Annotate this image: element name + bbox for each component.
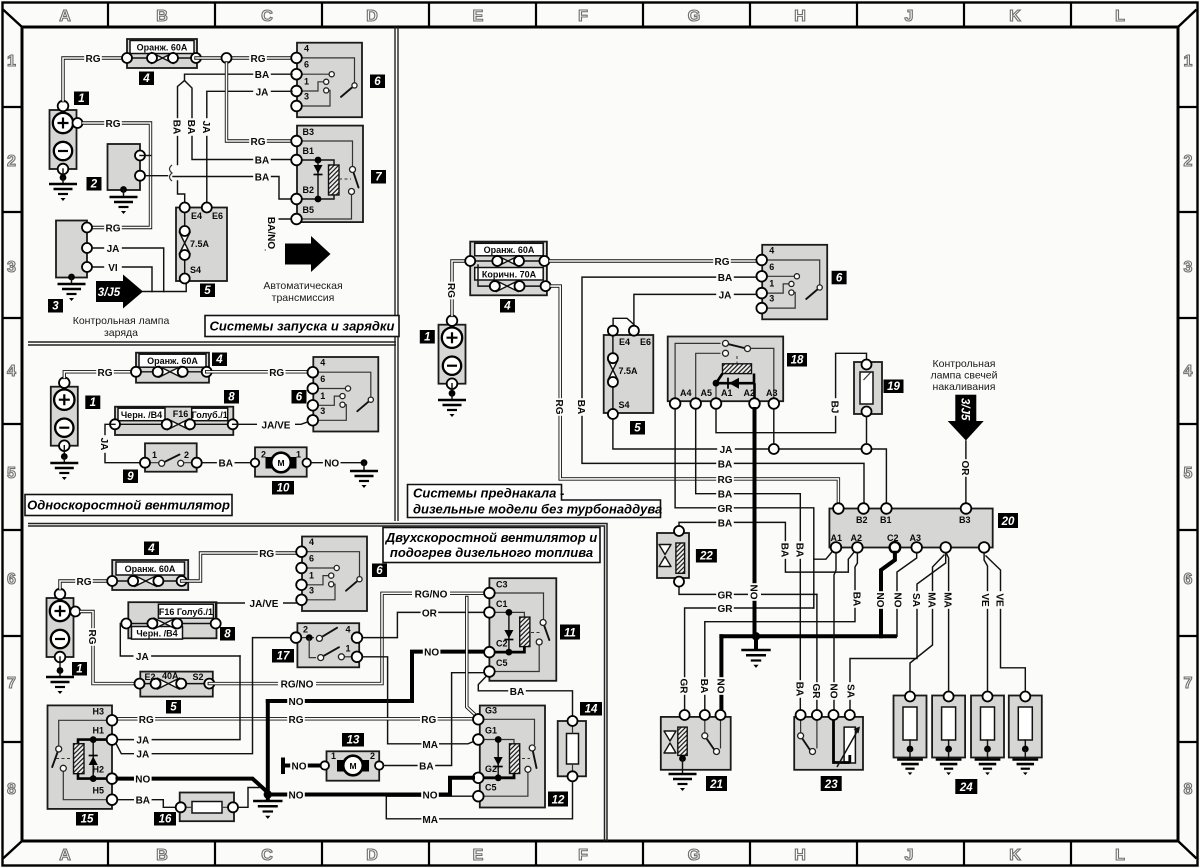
label 11 xyxy=(560,625,580,640)
svg-text:1: 1 xyxy=(76,664,82,676)
label 4 xyxy=(139,72,154,86)
wire GR relay18 A4 trunk xyxy=(675,409,832,608)
svg-text:M: M xyxy=(277,458,284,468)
battery 1 (single-speed fan) xyxy=(51,377,78,451)
svg-text:G3: G3 xyxy=(485,706,497,716)
glow plug 24b xyxy=(932,692,965,776)
wire GR comp23 riser xyxy=(810,594,824,714)
label 17 xyxy=(272,649,294,663)
ground (fan motor) xyxy=(350,459,378,488)
wire RG battery to fuse 4 (preheat) xyxy=(445,261,465,315)
warning module 2 xyxy=(108,144,151,190)
generator/battery 1 (charging section) xyxy=(50,101,77,175)
glow plug relay 18 xyxy=(668,337,784,409)
svg-text:3: 3 xyxy=(1184,259,1193,276)
wire RG fuse4 to switch 6 (sec2) xyxy=(207,366,308,379)
label 16 xyxy=(154,812,176,826)
svg-text:трансмиссия: трансмиссия xyxy=(272,292,335,304)
svg-text:MA: MA xyxy=(942,592,953,608)
svg-text:B: B xyxy=(156,847,168,864)
svg-text:Оранж. 60А: Оранж. 60А xyxy=(137,43,188,53)
svg-text:B3: B3 xyxy=(959,515,971,525)
svg-text:16: 16 xyxy=(159,814,172,826)
svg-text:A1: A1 xyxy=(721,388,733,398)
label 21 xyxy=(706,776,727,791)
svg-text:4: 4 xyxy=(309,537,314,547)
svg-text:E4: E4 xyxy=(191,211,202,221)
svg-text:H3: H3 xyxy=(92,707,104,717)
svg-text:NO: NO xyxy=(423,791,438,802)
svg-text:2: 2 xyxy=(1184,153,1193,170)
svg-text:H1: H1 xyxy=(92,726,104,736)
svg-text:5: 5 xyxy=(170,702,177,714)
svg-text:Черн. /В4: Черн. /В4 xyxy=(121,410,162,420)
svg-text:F16: F16 xyxy=(173,409,189,419)
svg-text:A3: A3 xyxy=(766,388,778,398)
svg-text:RG: RG xyxy=(553,400,564,415)
svg-text:VI: VI xyxy=(108,263,118,274)
wire NO thick to fan motor 13 xyxy=(283,760,321,773)
wire GR branch to heater 22 xyxy=(679,587,817,601)
fuse 8 (F16) sec2 xyxy=(110,407,238,435)
svg-text:OR: OR xyxy=(422,608,438,619)
caption charge warning lamp xyxy=(73,315,170,339)
row numbers right xyxy=(1184,53,1193,798)
label 1 xyxy=(72,662,87,676)
label 6 xyxy=(370,75,385,89)
svg-text:2: 2 xyxy=(7,153,16,170)
svg-text:NO: NO xyxy=(874,593,885,608)
double fuse 4 (Orange 60A / Brown 70A) xyxy=(465,242,550,296)
svg-text:F: F xyxy=(578,847,588,864)
svg-text:дизельные модели без турбонадд: дизельные модели без турбонаддува xyxy=(413,502,662,517)
svg-text:RG: RG xyxy=(251,137,266,148)
svg-text:RG: RG xyxy=(139,715,154,726)
thermoswitch 9 xyxy=(140,443,202,471)
svg-text:A: A xyxy=(59,847,71,864)
svg-text:1: 1 xyxy=(296,450,301,460)
caption glow plug warning lamp xyxy=(930,358,997,393)
svg-text:B: B xyxy=(156,8,168,25)
connector nodes on JA line xyxy=(769,444,779,454)
svg-text:6: 6 xyxy=(376,565,383,577)
svg-text:A: A xyxy=(59,8,71,25)
connector node on RG line xyxy=(222,53,232,63)
label 1 xyxy=(74,92,89,106)
svg-text:4: 4 xyxy=(215,354,223,366)
glow plug 24a xyxy=(894,692,927,776)
svg-text:3: 3 xyxy=(309,585,314,595)
relay 7 xyxy=(291,126,363,225)
svg-text:1: 1 xyxy=(309,570,314,580)
label 9 xyxy=(123,470,138,484)
svg-text:6: 6 xyxy=(769,262,774,272)
svg-text:RG: RG xyxy=(421,715,436,726)
relay 12 xyxy=(473,706,545,808)
svg-text:RG: RG xyxy=(715,257,730,268)
wire RG battery to fuse 4 xyxy=(63,52,122,101)
svg-text:1: 1 xyxy=(769,279,774,289)
svg-text:17: 17 xyxy=(277,651,290,663)
connector RG/NO branch to relay12 G3 xyxy=(467,598,478,718)
label 7 xyxy=(371,170,386,184)
svg-text:F: F xyxy=(578,8,588,25)
svg-text:20: 20 xyxy=(1001,516,1015,528)
svg-text:6: 6 xyxy=(296,392,303,404)
ignition switch 6 (charging) xyxy=(291,43,362,118)
label 6 xyxy=(372,564,387,578)
svg-text:6: 6 xyxy=(374,76,381,88)
svg-text:11: 11 xyxy=(564,628,576,640)
svg-text:BA: BA xyxy=(255,70,269,81)
wire JA unit 3 to S4 junction xyxy=(93,242,164,292)
svg-text:RG: RG xyxy=(98,368,113,379)
svg-text:JA: JA xyxy=(136,750,149,761)
wire MA to glow plug 2 xyxy=(942,554,956,692)
svg-text:заряда: заряда xyxy=(104,327,138,339)
svg-text:BA: BA xyxy=(185,120,196,134)
svg-text:MA: MA xyxy=(926,592,937,608)
svg-text:D: D xyxy=(366,8,378,25)
column letters bottom xyxy=(59,847,1125,864)
svg-text:8: 8 xyxy=(224,629,231,641)
fuse 5 (7.5A E4/S4) charging xyxy=(176,203,227,284)
section divider between charging and single-speed-fan sections xyxy=(28,342,396,345)
svg-text:7.5A: 7.5A xyxy=(190,239,210,249)
svg-text:B2: B2 xyxy=(856,515,868,525)
svg-text:Автоматическая: Автоматическая xyxy=(263,280,342,292)
svg-text:BA: BA xyxy=(575,400,586,414)
label 19 xyxy=(884,380,904,394)
svg-text:A5: A5 xyxy=(701,388,713,398)
wire BJ relay18 A1 to resistor 19 xyxy=(716,353,867,432)
svg-text:SA: SA xyxy=(845,684,856,698)
svg-text:SA: SA xyxy=(910,593,921,607)
ground (battery sec3) xyxy=(46,657,74,694)
wire VE to glow plug 4 xyxy=(986,556,1025,691)
svg-text:BA: BA xyxy=(255,173,269,184)
svg-text:NO: NO xyxy=(748,585,759,600)
svg-text:GR: GR xyxy=(718,504,734,515)
svg-text:JA: JA xyxy=(98,438,109,451)
relay 11 xyxy=(484,578,556,681)
label 8 xyxy=(224,390,239,404)
svg-text:Системы запуска и зарядки: Системы запуска и зарядки xyxy=(210,319,395,334)
svg-text:8: 8 xyxy=(1184,781,1193,798)
preheat control unit 20 xyxy=(829,503,992,553)
svg-text:Оранж. 60А: Оранж. 60А xyxy=(147,356,198,366)
svg-text:BA: BA xyxy=(718,490,732,501)
dropping resistor 14 xyxy=(558,716,586,781)
glow plug 24d xyxy=(1009,692,1042,776)
svg-text:BA: BA xyxy=(718,273,732,284)
svg-text:6: 6 xyxy=(320,374,325,384)
wire A3 down to JA line xyxy=(773,409,775,444)
label 6 xyxy=(832,271,847,285)
fuel heater 16 xyxy=(176,793,238,822)
battery 1 (two-speed fan) xyxy=(47,589,74,663)
svg-text:3: 3 xyxy=(769,294,774,304)
ground (unit 3) xyxy=(58,274,86,301)
fuel filter heater 22 xyxy=(657,526,689,587)
ground (battery preheat) xyxy=(438,384,466,417)
svg-text:NO: NO xyxy=(892,593,903,608)
wire NO thick relay18 A2 to central ground xyxy=(748,409,762,636)
svg-text:BJ: BJ xyxy=(829,401,840,414)
wire link E4 to E6 riser xyxy=(613,318,634,325)
svg-text:RG: RG xyxy=(86,54,101,65)
svg-text:K: K xyxy=(1009,8,1021,25)
fuse 4 (Orange 60A) sec3 xyxy=(107,560,188,590)
label 3 xyxy=(48,299,63,313)
svg-text:2: 2 xyxy=(370,751,375,761)
svg-text:NO: NO xyxy=(828,684,839,699)
wire NO trunk vertical (sec3) xyxy=(266,701,270,795)
wire BA motor13 to relay11 C5 xyxy=(384,673,485,773)
svg-text:1: 1 xyxy=(346,644,351,654)
wire RG fuse 4 to ignition switch 6 xyxy=(196,52,292,65)
svg-text:Двухскоростной вентилятор и: Двухскоростной вентилятор и xyxy=(385,530,598,545)
svg-text:1: 1 xyxy=(1184,53,1193,70)
arrow automatic transmission xyxy=(263,236,342,304)
svg-text:E4: E4 xyxy=(619,337,630,347)
svg-text:RG: RG xyxy=(77,577,92,588)
svg-text:4: 4 xyxy=(769,246,774,256)
svg-text:3: 3 xyxy=(320,406,325,416)
svg-text:JA/VE: JA/VE xyxy=(262,420,291,431)
svg-text:накаливания: накаливания xyxy=(933,381,996,393)
svg-text:5: 5 xyxy=(1184,465,1193,482)
resistor 19 xyxy=(854,360,882,417)
svg-text:E6: E6 xyxy=(640,337,651,347)
svg-text:J: J xyxy=(905,847,914,864)
svg-text:13: 13 xyxy=(347,735,360,747)
ground (preheat bus) xyxy=(741,636,770,668)
svg-text:Оранж. 60А: Оранж. 60А xyxy=(125,564,176,574)
svg-text:L: L xyxy=(1115,8,1125,25)
svg-text:GR: GR xyxy=(718,604,734,615)
svg-text:BA: BA xyxy=(778,543,789,557)
wire JA fuse8 to relay15 H1 xyxy=(118,656,241,747)
svg-text:3/J5: 3/J5 xyxy=(959,398,971,421)
svg-text:BA: BA xyxy=(419,762,433,773)
arrow 3/J5 (glow lamp) xyxy=(948,395,984,441)
wire BA module 2 to relay 7 B2 (splice) xyxy=(146,165,293,199)
svg-text:4: 4 xyxy=(346,625,351,635)
label 13 xyxy=(342,733,364,747)
svg-text:D: D xyxy=(366,847,378,864)
svg-text:Односкоростной вентилятор: Односкоростной вентилятор xyxy=(27,498,230,513)
svg-text:E6: E6 xyxy=(212,211,223,221)
wire MA switch17-1 to relay12 G1 xyxy=(363,657,474,751)
svg-text:8: 8 xyxy=(228,392,235,404)
svg-text:A1: A1 xyxy=(831,533,843,543)
svg-text:BA: BA xyxy=(718,459,732,470)
wire NO (trunk to relay 11 C2) xyxy=(268,646,484,708)
svg-text:2: 2 xyxy=(261,450,266,460)
svg-text:BA: BA xyxy=(218,459,232,470)
svg-text:10: 10 xyxy=(277,483,290,495)
svg-text:5: 5 xyxy=(634,423,641,435)
svg-text:21: 21 xyxy=(709,779,723,791)
label 4 xyxy=(212,353,227,367)
ignition switch 6 (preheat) xyxy=(756,245,827,319)
svg-text:C: C xyxy=(261,847,273,864)
svg-text:9: 9 xyxy=(127,471,134,483)
svg-text:6: 6 xyxy=(309,554,314,564)
svg-text:Оранж. 60А: Оранж. 60А xyxy=(484,245,535,255)
svg-text:BA: BA xyxy=(171,120,182,134)
label 1 xyxy=(420,330,435,344)
svg-text:4: 4 xyxy=(503,301,511,313)
wire BA heater22 top to unit20 A2 xyxy=(679,516,854,572)
label 20 xyxy=(998,513,1018,528)
svg-text:C: C xyxy=(261,8,273,25)
svg-text:H: H xyxy=(794,847,806,864)
title: two-speed fan and diesel fuel heating xyxy=(383,528,600,563)
label 10 xyxy=(272,481,294,495)
svg-text:RG: RG xyxy=(445,283,456,298)
svg-text:MA: MA xyxy=(422,815,438,826)
svg-text:GR: GR xyxy=(810,684,821,700)
svg-text:RG: RG xyxy=(86,630,97,645)
svg-text:Голуб./1: Голуб./1 xyxy=(192,410,228,420)
svg-text:2: 2 xyxy=(303,625,308,635)
wire BA unit20 A2 to heater 21 xyxy=(698,553,864,715)
svg-text:M: M xyxy=(349,761,356,771)
svg-text:G: G xyxy=(688,8,700,25)
wire NO unit20 A1 to sensor 23 xyxy=(828,553,842,715)
svg-text:VE: VE xyxy=(994,593,1005,607)
wire NO relay15 H2 to central ground xyxy=(118,773,268,793)
label 8 xyxy=(220,627,235,641)
svg-text:NO: NO xyxy=(135,775,150,786)
svg-text:1: 1 xyxy=(331,751,336,761)
svg-text:BA: BA xyxy=(793,682,804,696)
wire resistor 19 to JA line xyxy=(866,417,868,444)
svg-text:7.5A: 7.5A xyxy=(619,366,639,376)
wire OR switch17-4 to relay11 C1 xyxy=(363,606,485,637)
svg-text:3/J5: 3/J5 xyxy=(98,287,121,299)
svg-text:Контрольная: Контрольная xyxy=(933,358,996,370)
wire to fuse 5 S4 xyxy=(143,284,186,292)
svg-text:6: 6 xyxy=(1184,571,1193,588)
svg-text:NO: NO xyxy=(289,697,304,708)
fuel heater 21 xyxy=(661,710,731,770)
svg-text:JA: JA xyxy=(256,87,269,98)
ignition switch 6 (sec2) xyxy=(308,357,379,432)
relay 15 xyxy=(48,705,118,809)
wire OR arrow to control unit B3 xyxy=(959,441,973,504)
svg-text:1: 1 xyxy=(320,391,325,401)
svg-text:2: 2 xyxy=(90,179,98,191)
svg-text:GR: GR xyxy=(718,590,734,601)
svg-text:B1: B1 xyxy=(303,146,315,156)
svg-text:BA: BA xyxy=(255,156,269,167)
svg-text:BA: BA xyxy=(698,679,709,693)
svg-text:BA: BA xyxy=(793,543,804,557)
svg-text:6: 6 xyxy=(304,60,309,70)
svg-text:JA: JA xyxy=(107,244,120,255)
title: starting and charging systems xyxy=(205,316,399,337)
svg-text:C2: C2 xyxy=(887,533,899,543)
svg-text:4: 4 xyxy=(142,73,150,85)
svg-text:G2: G2 xyxy=(485,764,497,774)
wire NO thick ground bus to heater 21 xyxy=(714,636,728,714)
wire NO motor to ground xyxy=(311,457,364,470)
svg-text:5: 5 xyxy=(204,285,211,297)
fan motor 10 xyxy=(251,447,311,476)
ground (heater 21) xyxy=(669,759,697,792)
wire NO unit20 A3 down to ground bus xyxy=(892,553,917,637)
svg-text:JA: JA xyxy=(136,736,149,747)
svg-text:C5: C5 xyxy=(485,783,497,793)
wire JA switch17-2 to relay15 H1 xyxy=(116,638,291,761)
svg-text:18: 18 xyxy=(791,355,804,367)
label 15 xyxy=(76,812,98,826)
svg-text:14: 14 xyxy=(585,704,598,716)
svg-text:1: 1 xyxy=(90,397,96,409)
svg-text:4: 4 xyxy=(7,363,16,380)
left sections right border xyxy=(395,27,398,521)
label 5 xyxy=(166,700,181,714)
wire JA fuse8 to thermoswitch 9 xyxy=(98,424,140,462)
svg-text:NO: NO xyxy=(324,459,339,470)
svg-text:A3: A3 xyxy=(910,533,922,543)
ignition switch 6 (sec3) xyxy=(296,537,367,612)
svg-text:B2: B2 xyxy=(303,185,315,195)
svg-text:JA: JA xyxy=(200,121,211,134)
svg-text:JA: JA xyxy=(136,652,149,663)
svg-text:Контрольная лампа: Контрольная лампа xyxy=(73,315,170,327)
svg-text:JA: JA xyxy=(720,445,733,456)
svg-text:4: 4 xyxy=(304,43,309,53)
svg-text:RG: RG xyxy=(251,54,266,65)
svg-text:C2: C2 xyxy=(496,639,508,649)
column letters top xyxy=(59,8,1125,25)
label 12 xyxy=(548,792,568,807)
wire VE to glow plug 3 xyxy=(979,553,993,691)
fan motor 13 xyxy=(321,751,384,781)
svg-text:7: 7 xyxy=(1184,675,1193,692)
wire BA/NO relay7 B5 to automatic transmission xyxy=(265,214,291,252)
svg-text:8: 8 xyxy=(7,781,16,798)
svg-text:F16 Голуб./1: F16 Голуб./1 xyxy=(159,607,213,617)
svg-text:BA/NO: BA/NO xyxy=(265,217,276,249)
label 22 xyxy=(696,549,717,563)
label 4 xyxy=(500,299,515,313)
wire RG battery to fuse 4 (sec2) xyxy=(64,366,136,379)
svg-text:GR: GR xyxy=(678,679,689,695)
label 5 xyxy=(630,421,645,435)
ground (battery sec2) xyxy=(50,446,78,480)
svg-text:OR: OR xyxy=(959,461,970,477)
svg-text:H: H xyxy=(794,8,806,25)
wire RG fuse4 brown to control unit 20 xyxy=(551,286,838,503)
svg-text:JA: JA xyxy=(719,290,732,301)
wire MA to glow plug 1 xyxy=(910,555,944,691)
svg-text:B1: B1 xyxy=(880,515,892,525)
wire BA relay11 C5 to resistor 14 xyxy=(478,677,572,717)
svg-text:MA: MA xyxy=(422,740,438,751)
svg-text:1: 1 xyxy=(78,93,84,105)
wire splice to fuse 5 E4 xyxy=(178,181,185,202)
svg-text:G1: G1 xyxy=(485,726,497,736)
label 5 xyxy=(200,284,215,298)
svg-text:C1: C1 xyxy=(496,599,508,609)
svg-text:E2: E2 xyxy=(145,672,156,682)
svg-text:6: 6 xyxy=(836,272,843,284)
